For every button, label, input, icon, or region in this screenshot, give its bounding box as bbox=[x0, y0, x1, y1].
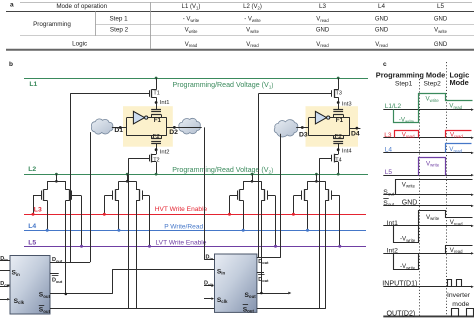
svg-text:L1 (V1): L1 (V1) bbox=[182, 4, 201, 10]
svg-text:L5: L5 bbox=[28, 240, 36, 247]
svg-text:Vread: Vread bbox=[316, 17, 329, 23]
svg-text:D1: D1 bbox=[114, 127, 123, 134]
svg-text:LVT Write Enable: LVT Write Enable bbox=[156, 239, 207, 246]
svg-text:T1: T1 bbox=[153, 91, 159, 97]
svg-text:L3: L3 bbox=[34, 207, 42, 214]
svg-text:GND: GND bbox=[434, 42, 448, 48]
svg-text:Dclk: Dclk bbox=[204, 281, 214, 287]
svg-text:L4: L4 bbox=[378, 3, 386, 10]
svg-text:Step2: Step2 bbox=[424, 81, 442, 88]
svg-text:Mode of operation: Mode of operation bbox=[56, 3, 107, 10]
svg-text:L3: L3 bbox=[384, 132, 392, 139]
svg-text:mode: mode bbox=[452, 301, 469, 308]
svg-text:Dout: Dout bbox=[258, 259, 269, 265]
svg-text:c: c bbox=[383, 61, 387, 68]
svg-text:Int2: Int2 bbox=[387, 248, 399, 255]
svg-text:F2: F2 bbox=[334, 133, 341, 140]
svg-text:Vread: Vread bbox=[185, 42, 198, 48]
svg-text:L2 (V2): L2 (V2) bbox=[243, 4, 262, 10]
svg-text:Step 2: Step 2 bbox=[110, 27, 129, 34]
svg-text:Step 1: Step 1 bbox=[109, 16, 128, 23]
svg-text:a: a bbox=[10, 2, 14, 9]
svg-text:T2: T2 bbox=[153, 158, 159, 164]
svg-text:L1/L2: L1/L2 bbox=[385, 103, 402, 110]
svg-text:D3: D3 bbox=[299, 131, 308, 138]
svg-text:Vwrite: Vwrite bbox=[246, 28, 260, 34]
svg-text:T3: T3 bbox=[336, 91, 342, 97]
svg-text:GND: GND bbox=[375, 28, 389, 34]
svg-text:Mode: Mode bbox=[450, 78, 469, 87]
svg-text:L5: L5 bbox=[437, 3, 445, 10]
svg-text:Logic: Logic bbox=[72, 40, 87, 47]
svg-text:Int3: Int3 bbox=[342, 101, 352, 107]
svg-text:Programming: Programming bbox=[33, 21, 71, 28]
svg-text:b: b bbox=[9, 61, 13, 68]
svg-text:P Write/Read: P Write/Read bbox=[164, 224, 203, 231]
svg-text:T4: T4 bbox=[335, 158, 341, 164]
svg-text:Dclk: Dclk bbox=[0, 281, 10, 287]
svg-text:Dout: Dout bbox=[52, 257, 63, 263]
svg-text:Din: Din bbox=[206, 255, 214, 261]
svg-text:Dout: Dout bbox=[52, 278, 63, 284]
svg-text:GND: GND bbox=[402, 200, 418, 207]
svg-text:Vread: Vread bbox=[246, 42, 259, 48]
svg-text:D2: D2 bbox=[169, 129, 178, 136]
svg-text:Vwrite: Vwrite bbox=[434, 28, 448, 34]
svg-text:Int2: Int2 bbox=[160, 149, 170, 155]
svg-text:L5: L5 bbox=[385, 169, 393, 176]
svg-text:Dout: Dout bbox=[258, 277, 269, 283]
svg-text:GND: GND bbox=[316, 28, 330, 34]
svg-text:INPUT(D1): INPUT(D1) bbox=[382, 280, 417, 288]
svg-text:Vwrite: Vwrite bbox=[185, 28, 199, 34]
svg-text:OUT(D2): OUT(D2) bbox=[387, 309, 416, 317]
svg-text:L4: L4 bbox=[28, 223, 36, 230]
svg-text:Programming/Read Voltage (V1): Programming/Read Voltage (V1) bbox=[173, 81, 274, 90]
svg-text:Din: Din bbox=[0, 256, 8, 262]
svg-text:Int1: Int1 bbox=[387, 220, 399, 227]
svg-text:GND: GND bbox=[434, 17, 448, 23]
svg-text:Vread: Vread bbox=[316, 42, 329, 48]
svg-text:Vread: Vread bbox=[375, 42, 388, 48]
svg-text:Int1: Int1 bbox=[160, 100, 170, 106]
svg-text:L4: L4 bbox=[385, 147, 393, 154]
svg-text:F2: F2 bbox=[152, 133, 159, 140]
svg-text:L3: L3 bbox=[319, 3, 327, 10]
svg-text:Programming Mode: Programming Mode bbox=[376, 70, 445, 79]
svg-text:GND: GND bbox=[375, 17, 389, 23]
svg-text:L1: L1 bbox=[29, 81, 37, 88]
svg-text:Inverter: Inverter bbox=[447, 292, 471, 299]
svg-text:HVT Write Enable: HVT Write Enable bbox=[155, 206, 208, 213]
svg-text:L2: L2 bbox=[28, 166, 36, 173]
svg-text:F1: F1 bbox=[154, 117, 162, 124]
svg-text:- Vwrite: - Vwrite bbox=[183, 17, 200, 23]
svg-text:- Vwrite: - Vwrite bbox=[244, 17, 261, 23]
svg-text:Step1: Step1 bbox=[395, 81, 413, 88]
svg-text:Int4: Int4 bbox=[342, 148, 352, 154]
svg-text:F1: F1 bbox=[336, 117, 344, 124]
svg-text:D4: D4 bbox=[351, 130, 360, 137]
